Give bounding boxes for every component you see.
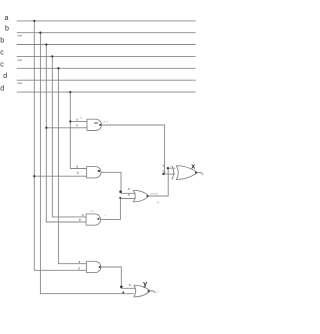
wire AND4 output to OR2 in1 [101,267,136,288]
AND gate G2 [87,167,101,178]
output tip dot G4 [99,266,101,268]
overline mark of c-bar [18,59,22,61]
AND gate G1 [87,119,101,130]
XOR gate extra arc [172,166,174,180]
junction dot line b-bar [45,43,47,45]
node dot OR2 in2 mark [122,292,124,294]
wire vertical from c [52,56,86,217]
wire vertical from b [40,33,133,294]
wire input line d [17,79,196,81]
wire input line d-bar [17,91,196,93]
svg-text:a: a [128,187,130,191]
svg-text:ab+cd: ab+cd [150,191,158,195]
wire branch b-bar to AND1 in2 [46,127,87,129]
svg-text:b: b [77,171,79,175]
svg-text:d: d [0,86,4,93]
AND gate G3 [86,214,100,225]
junction dot line b [39,32,41,34]
svg-text:cb: cb [91,209,94,213]
svg-text:b: b [0,38,4,45]
svg-text:a: a [78,260,80,264]
node dot OR1 in1 elbow [119,190,122,193]
wire input line b-bar [17,44,196,46]
svg-text:d: d [80,115,82,119]
OR gate O2 (output y) [134,285,150,297]
overline mark of d-bar [18,82,22,84]
junction dot a branch AND2 [33,175,35,177]
output tip dot OR1 [146,195,148,197]
svg-text:b: b [128,193,130,197]
svg-text:x: x [201,173,204,177]
svg-text:c: c [0,62,4,69]
overline mark of b-bar [18,35,22,37]
svg-text:b: b [76,123,78,127]
svg-text:c: c [0,49,4,56]
svg-text:b: b [5,25,9,32]
wire XOR output stub [197,173,203,175]
svg-text:a: a [76,118,78,122]
node dot XOR in1 elbow [167,167,169,169]
junction dot line d-bar [69,91,71,93]
svg-text:ab: ab [94,121,98,125]
wire AND1 output to XOR in2 [102,125,176,174]
XOR gate (output x) body [176,166,197,180]
wire OR2 output stub [150,291,156,293]
svg-text:a: a [129,283,131,287]
node dot XOR in2 elbow [162,173,164,175]
output tip dot G1 [99,124,101,126]
junction dot line a [33,20,35,22]
svg-text:a: a [76,165,78,169]
svg-text:y: y [143,279,147,288]
node dot OR2 in1 elbow [120,285,123,288]
svg-text:b: b [79,218,81,222]
svg-text:b·d: b·d [104,119,108,123]
junction dot b-bar branch AND1 [45,127,47,129]
output tip dot OR2 [148,290,150,292]
wire branch d-bar to AND1 in1 [70,120,87,122]
svg-text:d: d [3,73,7,80]
wire input line c-bar [17,67,196,69]
svg-text:–: – [103,213,106,217]
svg-text:a: a [82,213,84,217]
wire input line b [17,32,196,34]
OR gate O1 [133,190,149,202]
svg-text:b: b [78,267,80,271]
wire vertical from b-bar [46,45,86,223]
output tip dot G2 [98,170,100,172]
output tip dot G3 [97,218,99,220]
svg-text:a: a [163,163,165,167]
wire vertical from c-bar [58,68,86,263]
svg-text:y: y [156,290,159,294]
AND gate G4 [86,261,100,272]
svg-text:xy: xy [155,200,159,204]
junction dot line c [51,55,53,57]
svg-text:x: x [191,161,195,170]
wire vertical from d-bar [70,92,86,168]
wire input line c [17,55,196,57]
wire AND3 output to OR1 in2 [101,199,136,220]
wire branch a to AND2 in2 [34,175,86,177]
wire vertical from a [34,21,86,270]
svg-text:a: a [5,15,9,22]
wire input line a [17,20,196,22]
output tip dot XOR [195,172,197,174]
junction dot d-bar branch AND1 [69,120,71,122]
wire OR1 output to XOR in1 [149,168,175,196]
node dot OR1 in2 elbow [119,197,121,199]
junction dot line c-bar [57,67,59,69]
svg-text:b: b [163,169,165,173]
wire AND2 output to OR1 in1 [101,172,135,193]
